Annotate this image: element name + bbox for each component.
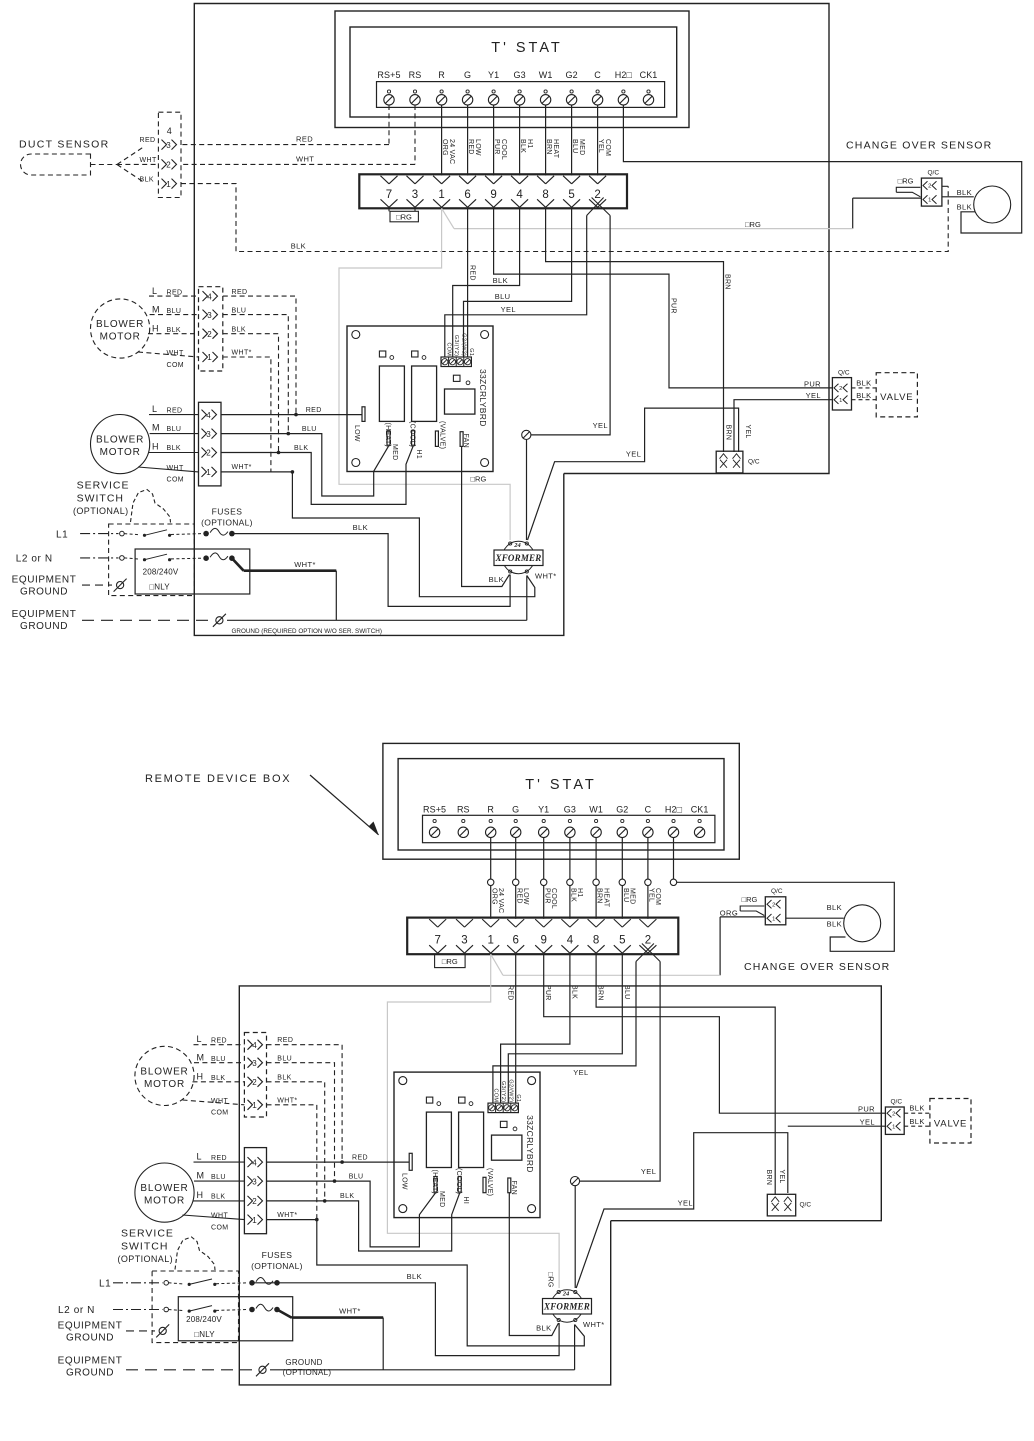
svg-text:BLK: BLK	[291, 241, 306, 250]
svg-text:24: 24	[513, 542, 521, 549]
svg-text:7: 7	[434, 935, 440, 947]
svg-text:H2□: H2□	[615, 70, 633, 80]
svg-text:CHANGE OVER SENSOR: CHANGE OVER SENSOR	[846, 140, 992, 152]
svg-text:BLU: BLU	[302, 426, 317, 433]
svg-text:Y1: Y1	[538, 805, 549, 815]
svg-text:SWITCH: SWITCH	[121, 1240, 168, 1252]
svg-text:BLOWER: BLOWER	[140, 1066, 188, 1077]
svg-text:2: 2	[252, 1197, 257, 1206]
svg-text:GROUND (REQUIRED OPTION W/O SE: GROUND (REQUIRED OPTION W/O SER. SWITCH)	[232, 628, 382, 635]
svg-text:7: 7	[386, 189, 392, 201]
svg-text:WHT*: WHT*	[277, 1212, 297, 1219]
svg-text:BLK: BLK	[493, 276, 508, 285]
svg-text:BLU: BLU	[622, 888, 629, 903]
svg-text:RED: RED	[140, 137, 156, 144]
svg-text:BRN: BRN	[765, 1170, 772, 1186]
svg-text:4: 4	[567, 935, 574, 947]
svg-text:RS: RS	[409, 70, 422, 80]
svg-text:YEL: YEL	[593, 421, 608, 430]
svg-text:WHT*: WHT*	[232, 350, 252, 357]
svg-text:MOTOR: MOTOR	[144, 1196, 185, 1207]
svg-text:COM: COM	[167, 477, 185, 484]
svg-text:L: L	[152, 404, 157, 414]
svg-text:BLK: BLK	[353, 523, 368, 532]
svg-text:L2 or N: L2 or N	[16, 553, 53, 564]
svg-text:YEL: YEL	[744, 425, 751, 439]
svg-text:BLU: BLU	[211, 1174, 226, 1181]
svg-text:GROUND: GROUND	[66, 1333, 114, 1344]
svg-text:6: 6	[464, 189, 470, 201]
svg-text:1: 1	[772, 916, 775, 922]
svg-text:24: 24	[562, 1291, 570, 1298]
svg-text:Q/C: Q/C	[928, 170, 940, 177]
svg-text:H: H	[152, 323, 159, 333]
svg-text:W1: W1	[589, 805, 603, 815]
svg-text:WHT: WHT	[167, 465, 184, 472]
svg-text:ORG: ORG	[490, 888, 497, 905]
svg-text:M: M	[197, 1052, 205, 1062]
svg-text:PUR: PUR	[858, 1105, 875, 1114]
svg-text:RS+5: RS+5	[423, 805, 446, 815]
svg-text:H: H	[152, 441, 159, 451]
svg-text:1: 1	[438, 189, 444, 201]
svg-text:YEL: YEL	[648, 888, 655, 902]
svg-text:VALVE: VALVE	[934, 1119, 967, 1130]
svg-text:COM: COM	[211, 1224, 229, 1231]
svg-text:9: 9	[490, 189, 496, 201]
svg-text:2: 2	[166, 161, 171, 170]
svg-text:BLK: BLK	[340, 1193, 354, 1200]
svg-text:(HEAT): (HEAT)	[431, 1170, 438, 1195]
svg-text:(OPTIONAL): (OPTIONAL)	[118, 1254, 174, 1264]
svg-text:WHT*: WHT*	[294, 560, 316, 569]
svg-text:1: 1	[892, 1124, 895, 1130]
svg-text:BRN: BRN	[545, 139, 552, 155]
svg-text:DUCT SENSOR: DUCT SENSOR	[19, 139, 110, 151]
svg-text:MED: MED	[391, 444, 398, 460]
svg-text:BLK: BLK	[570, 985, 577, 999]
svg-text:L1: L1	[56, 529, 68, 540]
svg-text:C: C	[594, 70, 601, 80]
svg-text:BLK: BLK	[211, 1193, 225, 1200]
svg-text:BLU: BLU	[571, 139, 578, 154]
svg-text:GROUND: GROUND	[20, 587, 68, 598]
svg-text:RED: RED	[469, 265, 476, 281]
svg-text:PUR: PUR	[544, 985, 551, 1001]
svg-text:BLK: BLK	[856, 391, 871, 400]
svg-text:(VALVE): (VALVE)	[486, 1168, 493, 1196]
svg-text:WHT: WHT	[211, 1213, 228, 1220]
svg-text:BLOWER: BLOWER	[140, 1183, 188, 1194]
svg-text:L: L	[197, 1034, 202, 1044]
svg-text:□RG: □RG	[396, 213, 412, 222]
svg-text:WHT: WHT	[167, 350, 184, 357]
svg-text:CHANGE OVER SENSOR: CHANGE OVER SENSOR	[744, 961, 890, 973]
svg-text:RED: RED	[232, 289, 248, 296]
svg-text:BRN: BRN	[597, 985, 604, 1001]
svg-text:BLK: BLK	[167, 445, 181, 452]
svg-text:RED: RED	[211, 1037, 227, 1044]
svg-text:BLK: BLK	[211, 1075, 225, 1082]
svg-text:□RG: □RG	[742, 895, 758, 904]
svg-text:BLU: BLU	[167, 426, 182, 433]
svg-text:G3: G3	[513, 70, 525, 80]
svg-text:□RG: □RG	[898, 176, 914, 185]
svg-text:RED: RED	[507, 985, 514, 1001]
svg-text:H: H	[197, 1072, 204, 1082]
svg-text:YEL: YEL	[860, 1118, 875, 1127]
svg-text:BLK: BLK	[277, 1075, 291, 1082]
svg-text:2: 2	[206, 449, 211, 458]
svg-text:Q/C: Q/C	[891, 1098, 903, 1105]
svg-text:WHT*: WHT*	[583, 1320, 605, 1329]
svg-text:4: 4	[252, 1158, 257, 1167]
svg-text:H2□: H2□	[665, 805, 683, 815]
svg-text:FAN: FAN	[510, 1181, 517, 1196]
svg-text:GROUND: GROUND	[66, 1368, 114, 1379]
svg-text:(COOL): (COOL)	[408, 421, 415, 447]
svg-text:CK1: CK1	[691, 805, 709, 815]
svg-text:YEL: YEL	[597, 139, 604, 153]
svg-text:9: 9	[540, 935, 546, 947]
svg-text:□NLY: □NLY	[149, 582, 170, 591]
svg-text:BLOWER: BLOWER	[96, 319, 144, 330]
svg-text:BLK: BLK	[167, 327, 181, 334]
svg-text:RED: RED	[211, 1155, 227, 1162]
svg-text:(HEAT): (HEAT)	[384, 423, 391, 448]
svg-text:GROUND: GROUND	[285, 1358, 322, 1367]
svg-text:BLK: BLK	[140, 177, 154, 184]
svg-text:□RG: □RG	[442, 957, 458, 966]
svg-text:MOTOR: MOTOR	[100, 447, 141, 458]
svg-text:WHT: WHT	[296, 154, 314, 163]
svg-text:SERVICE: SERVICE	[121, 1227, 174, 1239]
svg-text:BLK: BLK	[957, 188, 972, 197]
svg-text:5: 5	[568, 189, 574, 201]
svg-text:BLK: BLK	[294, 445, 308, 452]
svg-text:RED: RED	[515, 888, 522, 904]
svg-text:1: 1	[928, 198, 931, 204]
svg-text:WHT: WHT	[140, 157, 157, 164]
svg-text:BLOWER: BLOWER	[96, 435, 144, 446]
svg-text:M: M	[152, 422, 160, 432]
svg-text:M: M	[197, 1170, 205, 1180]
svg-text:RED: RED	[296, 134, 313, 143]
svg-text:Q/C: Q/C	[771, 888, 783, 895]
svg-text:3: 3	[206, 430, 211, 439]
svg-text:G1: G1	[515, 1094, 521, 1102]
svg-text:Y1: Y1	[488, 70, 499, 80]
svg-text:1: 1	[207, 353, 212, 362]
svg-text:BLK: BLK	[232, 326, 246, 333]
svg-text:L: L	[152, 286, 157, 296]
svg-text:Q/C: Q/C	[748, 459, 760, 466]
svg-text:□RG: □RG	[471, 475, 487, 484]
svg-text:4: 4	[252, 1041, 257, 1050]
svg-text:3: 3	[412, 189, 418, 201]
svg-text:YEL: YEL	[778, 1170, 785, 1184]
svg-text:2: 2	[645, 935, 651, 947]
svg-text:BLK: BLK	[827, 920, 842, 929]
svg-text:RED: RED	[277, 1037, 293, 1044]
svg-text:FUSES: FUSES	[212, 507, 243, 517]
svg-text:G3/(Y2): G3/(Y2)	[500, 1081, 506, 1102]
svg-text:4: 4	[207, 292, 212, 301]
svg-text:3: 3	[252, 1177, 257, 1186]
svg-text:G2/(W2): G2/(W2)	[508, 1079, 514, 1102]
svg-text:1: 1	[166, 180, 171, 189]
svg-text:33ZCRLYBRD: 33ZCRLYBRD	[525, 1115, 535, 1173]
svg-text:EQUIPMENT: EQUIPMENT	[12, 575, 77, 586]
svg-text:WHT*: WHT*	[535, 571, 557, 580]
svg-text:(OPTIONAL): (OPTIONAL)	[283, 1368, 332, 1377]
svg-text:4: 4	[516, 189, 523, 201]
svg-text:MOTOR: MOTOR	[100, 332, 141, 343]
svg-text:SWITCH: SWITCH	[77, 493, 124, 505]
svg-text:208/240V: 208/240V	[143, 567, 179, 576]
svg-text:Q/C: Q/C	[838, 370, 850, 377]
svg-text:BLU: BLU	[232, 307, 247, 314]
svg-text:1: 1	[487, 935, 493, 947]
svg-text:2: 2	[892, 1111, 895, 1117]
svg-text:COM: COM	[445, 342, 451, 356]
svg-text:BLK: BLK	[909, 1117, 924, 1126]
svg-text:H: H	[197, 1190, 204, 1200]
svg-text:6: 6	[512, 935, 518, 947]
svg-text:ORG: ORG	[441, 139, 448, 156]
svg-text:ORG: ORG	[720, 909, 738, 918]
svg-text:BLK: BLK	[519, 139, 526, 153]
svg-text:RED: RED	[167, 407, 183, 414]
svg-text:EQUIPMENT: EQUIPMENT	[12, 609, 77, 620]
svg-text:(OPTIONAL): (OPTIONAL)	[251, 1261, 303, 1271]
svg-text:1: 1	[206, 468, 211, 477]
svg-text:BLU: BLU	[167, 308, 182, 315]
svg-text:W1: W1	[539, 70, 553, 80]
svg-text:BLK: BLK	[856, 378, 871, 387]
svg-text:XFORMER: XFORMER	[495, 553, 542, 563]
svg-text:LOW: LOW	[353, 425, 360, 442]
svg-text:2: 2	[928, 184, 931, 190]
svg-text:BLK: BLK	[827, 903, 842, 912]
svg-text:1: 1	[252, 1216, 257, 1225]
svg-text:(COOL): (COOL)	[455, 1168, 462, 1194]
svg-text:COM: COM	[167, 362, 185, 369]
svg-text:BLK: BLK	[957, 203, 972, 212]
svg-text:WHT*: WHT*	[277, 1098, 297, 1105]
svg-text:3: 3	[252, 1059, 257, 1068]
svg-text:BLU: BLU	[623, 985, 630, 1000]
svg-text:BRN: BRN	[596, 888, 603, 904]
svg-text:2: 2	[594, 189, 600, 201]
svg-text:BLK: BLK	[536, 1323, 551, 1332]
svg-text:BLU: BLU	[495, 292, 511, 301]
svg-text:BLK: BLK	[909, 1104, 924, 1113]
svg-text:BLU: BLU	[277, 1055, 292, 1062]
svg-text:5: 5	[619, 935, 625, 947]
svg-text:BRN: BRN	[725, 425, 732, 441]
svg-text:G3: G3	[564, 805, 576, 815]
svg-text:BLK: BLK	[407, 1272, 422, 1281]
svg-text:MOTOR: MOTOR	[144, 1079, 185, 1090]
svg-text:LOW: LOW	[400, 1173, 407, 1190]
svg-text:RED: RED	[352, 1154, 368, 1161]
svg-text:Q/C: Q/C	[800, 1202, 812, 1209]
svg-text:SERVICE: SERVICE	[77, 480, 130, 492]
svg-text:(OPTIONAL): (OPTIONAL)	[201, 518, 253, 528]
svg-text:3: 3	[166, 141, 171, 150]
svg-text:G2/(W2): G2/(W2)	[461, 333, 467, 356]
svg-text:2: 2	[839, 386, 842, 392]
svg-text:RS: RS	[457, 805, 470, 815]
svg-text:XFORMER: XFORMER	[543, 1302, 590, 1312]
svg-text:3: 3	[461, 935, 467, 947]
svg-text:□NLY: □NLY	[194, 1330, 215, 1339]
svg-text:YEL: YEL	[806, 391, 821, 400]
svg-text:WHT*: WHT*	[232, 464, 252, 471]
svg-text:FAN: FAN	[462, 434, 469, 449]
svg-text:REMOTE DEVICE BOX: REMOTE DEVICE BOX	[145, 773, 291, 785]
svg-text:2: 2	[252, 1078, 257, 1087]
svg-text:□RG: □RG	[546, 1272, 553, 1288]
svg-text:MED: MED	[438, 1191, 445, 1207]
svg-text:WHT: WHT	[211, 1098, 228, 1105]
svg-text:BLU: BLU	[349, 1173, 364, 1180]
svg-text:2: 2	[207, 330, 212, 339]
svg-text:T' STAT: T' STAT	[491, 40, 563, 56]
svg-text:HI: HI	[462, 1197, 469, 1205]
svg-text:EQUIPMENT: EQUIPMENT	[58, 1356, 123, 1367]
svg-text:BLK: BLK	[489, 575, 504, 584]
svg-text:CK1: CK1	[640, 70, 658, 80]
svg-text:WHT*: WHT*	[339, 1307, 361, 1316]
svg-text:G: G	[464, 70, 471, 80]
svg-text:L1: L1	[99, 1279, 111, 1290]
svg-text:COM: COM	[492, 1089, 498, 1103]
svg-text:T' STAT: T' STAT	[525, 777, 597, 793]
svg-text:YEL: YEL	[626, 449, 641, 458]
svg-text:G1: G1	[468, 348, 474, 356]
svg-text:G2: G2	[565, 70, 577, 80]
svg-text:COM: COM	[211, 1110, 229, 1117]
svg-text:33ZCRLYBRD: 33ZCRLYBRD	[478, 369, 488, 427]
svg-text:PUR: PUR	[670, 298, 677, 314]
svg-text:VALVE: VALVE	[880, 392, 913, 403]
svg-text:G2: G2	[616, 805, 628, 815]
svg-text:FUSES: FUSES	[262, 1250, 293, 1260]
svg-text:8: 8	[542, 189, 548, 201]
svg-text:2: 2	[772, 902, 775, 908]
svg-text:L: L	[197, 1151, 202, 1161]
svg-text:RED: RED	[167, 289, 183, 296]
svg-text:G3/(Y2): G3/(Y2)	[453, 335, 459, 356]
svg-text:G: G	[512, 805, 519, 815]
svg-text:R: R	[487, 805, 494, 815]
svg-text:(OPTIONAL): (OPTIONAL)	[73, 506, 129, 516]
svg-text:RED: RED	[467, 139, 474, 155]
svg-text:RED: RED	[306, 407, 322, 414]
svg-text:1: 1	[252, 1101, 257, 1110]
svg-text:RS+5: RS+5	[377, 70, 400, 80]
svg-text:H1: H1	[415, 450, 422, 460]
svg-text:1: 1	[839, 398, 842, 404]
svg-text:M: M	[152, 304, 160, 314]
svg-text:4: 4	[206, 411, 211, 420]
svg-text:4: 4	[167, 126, 172, 136]
svg-text:BRN: BRN	[724, 274, 731, 290]
svg-text:(VALVE): (VALVE)	[438, 421, 445, 449]
svg-text:YEL: YEL	[641, 1167, 656, 1176]
svg-text:PUR: PUR	[493, 139, 500, 155]
svg-text:YEL: YEL	[573, 1068, 588, 1077]
svg-text:EQUIPMENT: EQUIPMENT	[58, 1321, 123, 1332]
svg-text:PUR: PUR	[804, 379, 821, 388]
svg-text:GROUND: GROUND	[20, 621, 68, 632]
svg-text:YEL: YEL	[501, 305, 516, 314]
svg-text:L2 or N: L2 or N	[58, 1305, 95, 1316]
svg-text:□RG: □RG	[745, 220, 761, 229]
svg-text:3: 3	[207, 311, 212, 320]
svg-text:208/240V: 208/240V	[186, 1315, 222, 1324]
svg-text:BLK: BLK	[570, 888, 577, 902]
svg-text:8: 8	[593, 935, 599, 947]
svg-text:PUR: PUR	[543, 888, 550, 904]
svg-text:YEL: YEL	[678, 1198, 693, 1207]
svg-text:R: R	[438, 70, 445, 80]
svg-text:BLU: BLU	[211, 1056, 226, 1063]
svg-text:C: C	[645, 805, 652, 815]
